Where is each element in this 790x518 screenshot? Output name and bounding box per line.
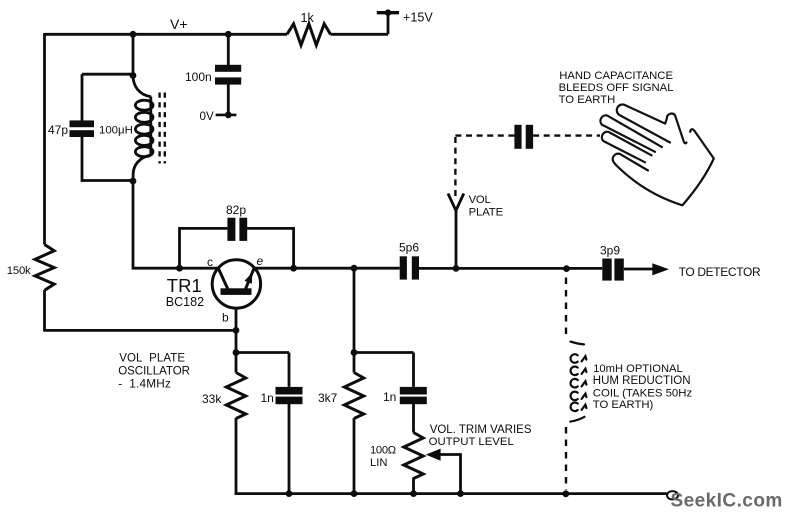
svg-text:150k: 150k — [7, 265, 31, 277]
arrow to detector — [652, 263, 669, 275]
resistor 1k — [287, 24, 331, 45]
wire tank to collector — [133, 181, 180, 269]
wire 82p loop left — [180, 228, 228, 268]
wire 1n first top lead — [288, 353, 291, 387]
node junction hum coil bottom — [562, 490, 569, 497]
node junction 1n first bottom — [286, 490, 293, 497]
svg-text:+15V: +15V — [403, 11, 433, 25]
node 0V terminal bar — [216, 114, 237, 117]
node +15V terminal bar — [377, 11, 399, 14]
wire tank bottom — [82, 179, 133, 182]
node junction wiper bottom — [457, 490, 464, 497]
capacitor 47p plates — [70, 120, 95, 137]
resistor 3k7 — [344, 373, 363, 419]
wire 100n bottom lead — [227, 85, 230, 115]
svg-text:47p: 47p — [48, 123, 68, 137]
svg-text:100Ω: 100Ω — [370, 444, 396, 456]
wire pot bottom lead — [412, 478, 415, 494]
hand illustration — [600, 104, 713, 205]
potentiometer wiper arrow — [426, 449, 441, 461]
svg-text:HAND CAPACITANCE: HAND CAPACITANCE — [559, 70, 673, 82]
wire tank left upper — [81, 74, 84, 120]
capacitor 1n first plates — [276, 387, 303, 404]
wire top rail left segment — [45, 33, 288, 36]
wire 3p9 to arrow — [624, 268, 654, 271]
wire base lead — [235, 295, 238, 353]
node junction V+ — [130, 31, 137, 38]
svg-text:82p: 82p — [226, 203, 246, 217]
node junction 82p right — [290, 265, 297, 272]
wire 3k7 bottom lead — [353, 418, 356, 494]
wire bottom rail — [235, 492, 667, 495]
node junction hum coil top — [563, 265, 570, 272]
wire 3k7 link to 1n — [354, 351, 414, 354]
node junction tank bottom — [130, 178, 137, 185]
node junction base — [233, 327, 240, 334]
resistor 150k — [35, 245, 54, 291]
svg-text:c: c — [207, 255, 213, 269]
svg-text:LIN: LIN — [370, 457, 387, 469]
wire 1n second to pot — [412, 404, 415, 433]
svg-text:- 1.4MHz: - 1.4MHz — [118, 376, 171, 390]
wire dashed hand coupling left — [455, 134, 514, 136]
capacitor hand coupling plates — [514, 125, 533, 149]
svg-text:33k: 33k — [202, 392, 222, 406]
node junction 3k7 link — [351, 349, 358, 356]
wire vol plate riser — [455, 208, 458, 268]
inductor 100uH adjustable core dashes — [160, 93, 165, 164]
node junction base link — [233, 349, 240, 356]
wire 82p loop right — [247, 228, 294, 268]
transistor TR1 collector lead — [218, 268, 227, 289]
svg-text:b: b — [222, 311, 229, 325]
node junction 3k7 bottom — [351, 490, 358, 497]
wire dashed vol plate vertical — [454, 136, 456, 196]
wire dashed hum coil upper — [565, 278, 567, 337]
svg-text:3k7: 3k7 — [318, 391, 338, 405]
transistor TR1 base bar — [221, 288, 252, 295]
wire pot wiper lead — [436, 455, 461, 494]
svg-text:1n: 1n — [261, 391, 274, 405]
svg-text:e: e — [257, 254, 264, 268]
svg-text:0V: 0V — [200, 110, 214, 123]
svg-text:1n: 1n — [383, 390, 396, 404]
transistor TR1 emitter arrow — [245, 273, 253, 284]
capacitor 100n plates — [215, 65, 241, 85]
transistor TR1 emitter lead — [246, 268, 254, 289]
wire 33k top lead — [235, 353, 238, 373]
node junction tank top — [130, 72, 137, 79]
svg-text:OUTPUT LEVEL: OUTPUT LEVEL — [429, 436, 514, 448]
svg-text:3p9: 3p9 — [600, 244, 620, 258]
svg-text:VOL. TRIM VARIES: VOL. TRIM VARIES — [430, 424, 532, 436]
svg-text:100n: 100n — [185, 70, 212, 84]
svg-text:VOL PLATE: VOL PLATE — [119, 353, 185, 365]
node junction 82p left — [176, 265, 183, 272]
wire dashed hand coupling right — [533, 134, 600, 136]
wire dashed hum coil lower — [565, 427, 567, 490]
svg-text:HUM REDUCTION: HUM REDUCTION — [593, 375, 691, 387]
svg-text:BLEEDS OFF SIGNAL: BLEEDS OFF SIGNAL — [559, 82, 674, 94]
wire main output line — [180, 267, 400, 270]
svg-text:TR1: TR1 — [167, 275, 202, 296]
svg-text:V+: V+ — [170, 16, 188, 32]
svg-text:10mH OPTIONAL: 10mH OPTIONAL — [593, 363, 683, 375]
svg-text:TO EARTH): TO EARTH) — [593, 399, 654, 411]
svg-text:VOL: VOL — [469, 194, 491, 206]
wire V+ node drop — [132, 34, 135, 75]
wire base link to 1n — [236, 351, 289, 354]
svg-text:TO DETECTOR: TO DETECTOR — [679, 265, 761, 279]
wire left vertical upper — [43, 33, 46, 245]
node junction 100n top — [225, 31, 232, 38]
bottom rail end loop — [667, 491, 678, 499]
svg-text:5p6: 5p6 — [399, 241, 419, 255]
node vol plate arrow — [448, 194, 464, 211]
node junction pot bottom — [410, 490, 417, 497]
svg-text:PLATE: PLATE — [469, 207, 504, 219]
svg-text:100μH: 100μH — [99, 125, 133, 137]
node 0V terminal dot — [225, 112, 232, 119]
node junction vol plate — [453, 265, 460, 272]
capacitor 5p6 plates — [400, 256, 419, 279]
svg-text:TO EARTH: TO EARTH — [559, 94, 616, 106]
capacitor 3p9 plates — [602, 259, 624, 281]
node junction 3k7 top — [351, 265, 358, 272]
wire 1n second top lead — [412, 353, 415, 387]
wire 3k7 branch vertical — [353, 268, 356, 372]
wire 33k bottom lead — [235, 418, 238, 495]
inductor 100uH coil — [133, 76, 153, 182]
svg-text:1k: 1k — [301, 11, 315, 25]
inductor 10mH hum reduction coil (dashed arcs) — [570, 342, 586, 422]
resistor 33k — [226, 373, 245, 419]
wire 1n first bottom lead — [288, 404, 291, 494]
wire tank left lower — [81, 137, 84, 182]
wire 100n top lead — [227, 34, 230, 65]
capacitor 82p plates — [227, 218, 247, 241]
transistor TR1 circle — [212, 260, 260, 308]
svg-text:SeekIC.com: SeekIC.com — [671, 491, 783, 512]
node +15V terminal dot — [385, 9, 392, 16]
wire +15V riser — [387, 13, 390, 35]
wire left vertical lower — [45, 290, 237, 330]
capacitor 1n second plates — [400, 387, 427, 404]
svg-text:BC182: BC182 — [166, 295, 204, 309]
svg-text:COIL (TAKES 50Hz: COIL (TAKES 50Hz — [593, 387, 693, 399]
potentiometer 100R LIN — [404, 433, 423, 479]
wire tank top — [82, 73, 133, 76]
wire between 5p6 and 3p9 — [419, 267, 602, 270]
wire top rail right segment — [331, 33, 389, 36]
